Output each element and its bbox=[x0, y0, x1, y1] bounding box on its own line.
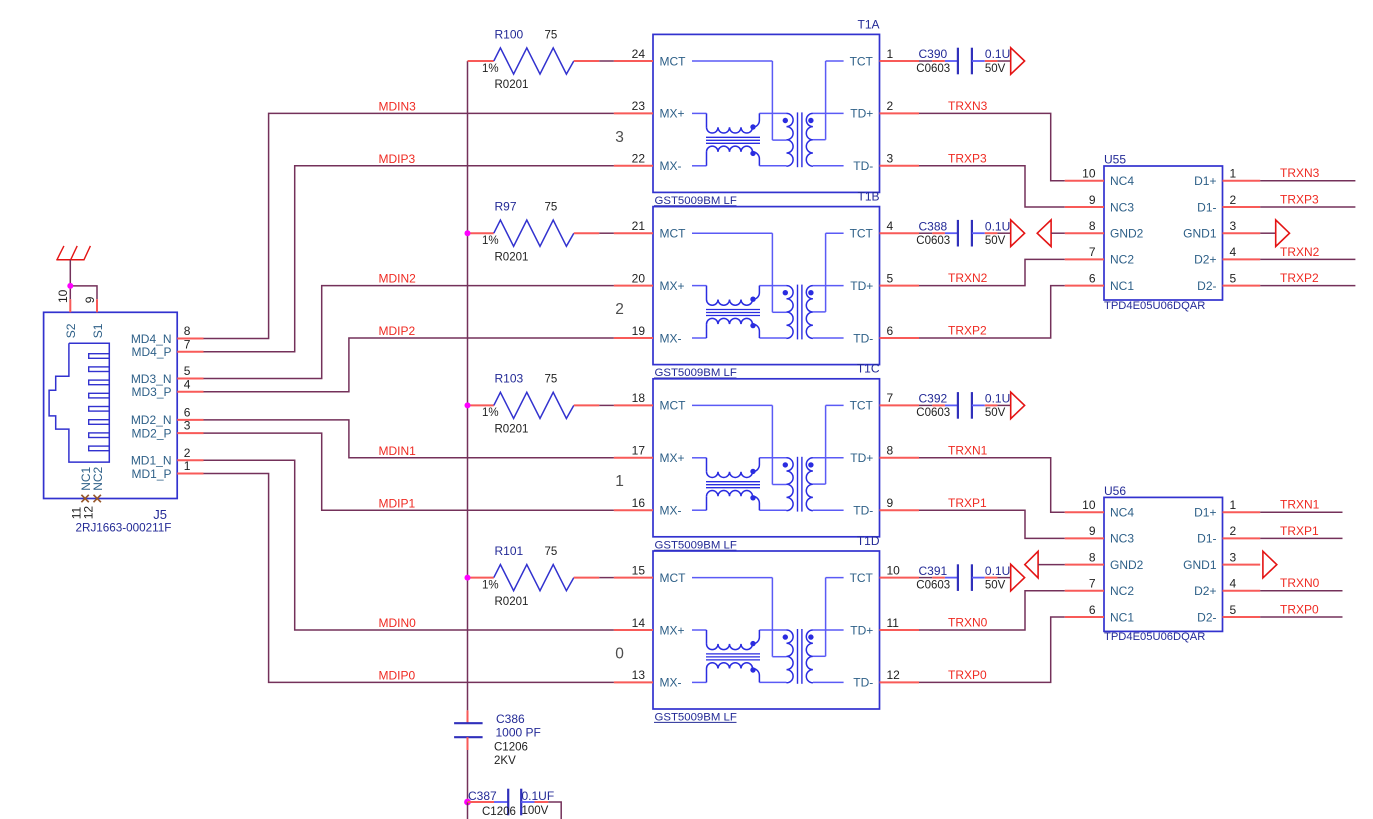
U55 pin 10 NC4 bbox=[1065, 167, 1135, 189]
svg-text:TRXP1: TRXP1 bbox=[948, 496, 987, 510]
svg-text:C391: C391 bbox=[919, 564, 948, 578]
svg-text:GND1: GND1 bbox=[1183, 558, 1217, 572]
junction bus R101 bbox=[465, 575, 471, 581]
T1B pin 5 bbox=[880, 271, 920, 285]
T1A pin 24 bbox=[614, 47, 653, 61]
svg-text:MX-: MX- bbox=[660, 504, 682, 518]
U56 pin 6 NC1 bbox=[1065, 603, 1135, 625]
svg-text:MDIP2: MDIP2 bbox=[379, 324, 416, 338]
svg-text:9: 9 bbox=[1089, 193, 1096, 207]
U56 GND1 chassis arrow bbox=[1263, 551, 1277, 578]
svg-text:TRXP3: TRXP3 bbox=[948, 151, 987, 165]
T1D pin 10 bbox=[880, 563, 920, 577]
svg-text:4: 4 bbox=[1230, 245, 1237, 259]
J5 pin 4 MD3_P bbox=[131, 377, 203, 399]
capacitor C387 0.1UF 100V C1206 bbox=[468, 789, 555, 818]
svg-text:S2: S2 bbox=[64, 323, 78, 338]
svg-text:MCT: MCT bbox=[660, 399, 687, 413]
svg-text:8: 8 bbox=[184, 324, 191, 338]
svg-text:R0201: R0201 bbox=[495, 79, 529, 91]
svg-text:50V: 50V bbox=[985, 235, 1006, 247]
chassis arrow C391 bbox=[1011, 564, 1025, 591]
wire C392 to chassis arrow bbox=[997, 404, 1010, 406]
U56 pin 5 D2- bbox=[1197, 603, 1260, 625]
chassis arrow C388 bbox=[1011, 220, 1025, 247]
U55 GND2 chassis arrow bbox=[1037, 220, 1065, 247]
svg-text:11: 11 bbox=[887, 616, 900, 630]
svg-text:NC3: NC3 bbox=[1110, 200, 1134, 214]
U55 pin 3 GND1 bbox=[1183, 219, 1260, 241]
svg-text:7: 7 bbox=[1089, 245, 1096, 259]
wire TRXN3 out bbox=[1260, 180, 1355, 182]
wire MDIN2 bbox=[204, 286, 614, 379]
svg-text:D1-: D1- bbox=[1197, 532, 1216, 546]
svg-text:1%: 1% bbox=[482, 235, 499, 247]
svg-text:TRXP2: TRXP2 bbox=[948, 324, 987, 338]
svg-text:7: 7 bbox=[184, 337, 191, 351]
svg-text:NC4: NC4 bbox=[1110, 174, 1134, 188]
svg-text:20: 20 bbox=[632, 271, 646, 285]
T1B pin 21 bbox=[614, 219, 653, 233]
svg-text:1%: 1% bbox=[482, 407, 499, 419]
svg-text:TCT: TCT bbox=[850, 571, 874, 585]
svg-text:3: 3 bbox=[184, 419, 191, 433]
svg-text:D1-: D1- bbox=[1197, 200, 1216, 214]
svg-text:5: 5 bbox=[887, 271, 894, 285]
svg-text:0.1U: 0.1U bbox=[985, 219, 1010, 233]
svg-text:15: 15 bbox=[632, 563, 646, 577]
svg-text:1000 PF: 1000 PF bbox=[496, 725, 541, 739]
svg-text:T1D: T1D bbox=[857, 534, 880, 548]
svg-text:MX+: MX+ bbox=[660, 623, 685, 637]
wire R97 to pin 21 bbox=[599, 232, 614, 234]
svg-text:10: 10 bbox=[1082, 498, 1096, 512]
U56 GND2 chassis arrow bbox=[1025, 551, 1065, 578]
junction C387 bbox=[464, 799, 471, 806]
svg-text:TD-: TD- bbox=[853, 159, 873, 173]
svg-text:R0201: R0201 bbox=[495, 251, 529, 263]
svg-text:NC2: NC2 bbox=[1110, 253, 1134, 267]
wire TRXP3 to TVS bbox=[919, 166, 1065, 207]
svg-text:8: 8 bbox=[1089, 550, 1096, 564]
svg-text:23: 23 bbox=[632, 99, 646, 113]
svg-text:8: 8 bbox=[1089, 219, 1096, 233]
svg-text:8: 8 bbox=[887, 444, 894, 458]
wire TRXP1 to TVS bbox=[919, 510, 1065, 538]
J5 pin 11 NC1 bbox=[69, 466, 93, 519]
svg-text:C0603: C0603 bbox=[916, 579, 950, 591]
resistor R100 75 1% R0201 bbox=[468, 27, 600, 91]
U56 pin 1 D1+ bbox=[1194, 498, 1260, 520]
wire R100 to pin 24 bbox=[599, 60, 614, 62]
wire chassis to J5 shield pins bbox=[70, 260, 97, 300]
svg-text:TCT: TCT bbox=[850, 54, 874, 68]
svg-text:C1206: C1206 bbox=[494, 742, 528, 754]
svg-text:100V: 100V bbox=[522, 805, 549, 817]
svg-text:9: 9 bbox=[887, 496, 894, 510]
svg-text:GST5009BM LF: GST5009BM LF bbox=[655, 539, 737, 551]
T1C pin 7 bbox=[880, 391, 920, 405]
svg-text:NC1: NC1 bbox=[1110, 610, 1134, 624]
chassis arrow C392 bbox=[1011, 392, 1025, 419]
svg-text:3: 3 bbox=[887, 152, 894, 166]
wire TRXN0 to TVS bbox=[919, 591, 1065, 630]
U55 pin 8 GND2 bbox=[1065, 219, 1144, 241]
wire R101 to pin 15 bbox=[599, 577, 614, 579]
svg-text:14: 14 bbox=[632, 616, 646, 630]
U55 pin 9 NC3 bbox=[1065, 193, 1135, 215]
capacitor C390 0.1U 50V C0603 bbox=[916, 47, 1010, 75]
svg-text:R103: R103 bbox=[495, 372, 524, 386]
U55 GND1 chassis arrow bbox=[1260, 220, 1289, 247]
svg-text:MD4_N: MD4_N bbox=[131, 332, 172, 346]
svg-text:0: 0 bbox=[615, 645, 624, 662]
svg-text:MCT: MCT bbox=[660, 227, 687, 241]
svg-text:2: 2 bbox=[1230, 524, 1237, 538]
wire C386 to C387 bbox=[467, 750, 469, 802]
svg-text:MDIP3: MDIP3 bbox=[379, 152, 416, 166]
svg-text:R0201: R0201 bbox=[495, 424, 529, 436]
connector J5 bbox=[44, 312, 178, 498]
svg-text:MD2_P: MD2_P bbox=[131, 426, 171, 440]
T1C pin 16 bbox=[614, 496, 653, 510]
svg-text:D2-: D2- bbox=[1197, 610, 1216, 624]
svg-text:MDIP1: MDIP1 bbox=[379, 496, 416, 510]
U56 pin 3 GND1 bbox=[1183, 550, 1260, 572]
svg-text:50V: 50V bbox=[985, 407, 1006, 419]
svg-text:TD+: TD+ bbox=[850, 451, 873, 465]
svg-text:4: 4 bbox=[184, 377, 191, 391]
svg-text:MDIN3: MDIN3 bbox=[379, 100, 417, 114]
T1A pin 3 bbox=[880, 152, 920, 166]
svg-text:C1206: C1206 bbox=[482, 806, 516, 818]
svg-text:5: 5 bbox=[1230, 271, 1237, 285]
T1D pin 13 bbox=[614, 668, 653, 682]
svg-text:U56: U56 bbox=[1104, 484, 1126, 498]
svg-text:C0603: C0603 bbox=[916, 63, 950, 75]
J5 pin 3 MD2_P bbox=[131, 419, 203, 441]
J5 pin 2 MD1_N bbox=[131, 446, 204, 468]
U55 pin 2 D1- bbox=[1197, 193, 1260, 215]
U56 pin 2 D1- bbox=[1197, 524, 1260, 546]
J5 pin 9 S1 bbox=[83, 296, 105, 338]
svg-text:2: 2 bbox=[184, 446, 191, 460]
wire TRXP0 out bbox=[1260, 616, 1342, 618]
TVS diode array U56 TPD4E05U06DQAR bbox=[1104, 484, 1223, 643]
wire TRXP2 to TVS bbox=[919, 286, 1065, 338]
svg-text:MCT: MCT bbox=[660, 571, 687, 585]
transformer T1A GST5009BM LF bbox=[653, 17, 880, 207]
svg-text:C390: C390 bbox=[919, 47, 948, 61]
svg-text:MDIN2: MDIN2 bbox=[379, 272, 417, 286]
svg-text:TCT: TCT bbox=[850, 399, 874, 413]
svg-text:1: 1 bbox=[184, 459, 191, 473]
svg-text:MX-: MX- bbox=[660, 676, 682, 690]
svg-text:10: 10 bbox=[887, 563, 901, 577]
svg-text:75: 75 bbox=[545, 202, 558, 214]
J5 pin 7 MD4_P bbox=[131, 337, 203, 359]
T1C pin 18 bbox=[614, 391, 653, 405]
svg-text:50V: 50V bbox=[985, 579, 1006, 591]
svg-text:3: 3 bbox=[1230, 219, 1237, 233]
T1D pin 12 bbox=[880, 668, 920, 682]
svg-text:3: 3 bbox=[1230, 550, 1237, 564]
wire MCT bus vertical bbox=[467, 61, 469, 710]
svg-text:TD+: TD+ bbox=[850, 107, 873, 121]
svg-text:MX+: MX+ bbox=[660, 107, 685, 121]
svg-text:NC3: NC3 bbox=[1110, 532, 1134, 546]
T1D pin 15 bbox=[614, 563, 653, 577]
svg-text:D2+: D2+ bbox=[1194, 584, 1216, 598]
svg-text:TRXP2: TRXP2 bbox=[1280, 271, 1319, 285]
wire TRXN2 out bbox=[1260, 258, 1355, 260]
wire TRXP3 out bbox=[1260, 206, 1355, 208]
svg-text:10: 10 bbox=[56, 289, 70, 303]
svg-text:TD+: TD+ bbox=[850, 279, 873, 293]
svg-text:6: 6 bbox=[1089, 271, 1096, 285]
svg-text:TRXN1: TRXN1 bbox=[1280, 498, 1320, 512]
svg-text:R101: R101 bbox=[495, 544, 524, 558]
T1D pin 11 bbox=[880, 616, 920, 630]
capacitor C391 0.1U 50V C0603 bbox=[916, 564, 1010, 592]
resistor R101 75 1% R0201 bbox=[468, 544, 600, 608]
svg-text:C387: C387 bbox=[468, 789, 497, 803]
svg-text:0.1UF: 0.1UF bbox=[522, 789, 555, 803]
svg-text:C0603: C0603 bbox=[916, 407, 950, 419]
transformer T1C GST5009BM LF bbox=[653, 362, 880, 552]
svg-text:GND1: GND1 bbox=[1183, 227, 1217, 241]
svg-text:R100: R100 bbox=[495, 27, 524, 41]
svg-text:R0201: R0201 bbox=[495, 596, 529, 608]
svg-text:TRXN2: TRXN2 bbox=[948, 271, 988, 285]
TVS diode array U55 TPD4E05U06DQAR bbox=[1104, 153, 1223, 312]
svg-text:TRXN1: TRXN1 bbox=[948, 443, 988, 457]
capacitor C386 1000PF C1206 2KV bbox=[454, 710, 541, 767]
wire MDIP3 bbox=[204, 166, 614, 352]
svg-text:TCT: TCT bbox=[850, 227, 874, 241]
resistor R97 75 1% R0201 bbox=[468, 200, 600, 264]
svg-text:TRXN0: TRXN0 bbox=[948, 616, 988, 630]
svg-text:TRXP1: TRXP1 bbox=[1280, 524, 1319, 538]
svg-text:TRXN3: TRXN3 bbox=[1280, 166, 1320, 180]
U55 pin 5 D2- bbox=[1197, 271, 1260, 293]
svg-text:12: 12 bbox=[81, 506, 95, 520]
svg-text:6: 6 bbox=[184, 406, 191, 420]
svg-text:22: 22 bbox=[632, 152, 646, 166]
svg-text:5: 5 bbox=[184, 364, 191, 378]
chassis ground symbol bbox=[56, 246, 90, 260]
svg-text:4: 4 bbox=[887, 219, 894, 233]
wire TRXP0 to TVS bbox=[919, 617, 1065, 682]
svg-text:17: 17 bbox=[632, 444, 646, 458]
T1A pin 23 bbox=[614, 99, 653, 113]
wire C391 to chassis arrow bbox=[997, 577, 1010, 579]
svg-text:MDIN0: MDIN0 bbox=[379, 616, 417, 630]
wire C390 to chassis arrow bbox=[997, 60, 1010, 62]
T1B pin 4 bbox=[880, 219, 920, 233]
svg-text:TRXP3: TRXP3 bbox=[1280, 192, 1319, 206]
wire TRXN1 to TVS bbox=[919, 458, 1065, 512]
J5 pin 6 MD2_N bbox=[131, 406, 204, 428]
svg-text:MD3_N: MD3_N bbox=[131, 372, 172, 386]
T1C pin 8 bbox=[880, 444, 920, 458]
svg-text:2: 2 bbox=[887, 99, 894, 113]
svg-text:10: 10 bbox=[1082, 167, 1096, 181]
svg-text:75: 75 bbox=[545, 374, 558, 386]
svg-text:4: 4 bbox=[1230, 577, 1237, 591]
svg-text:75: 75 bbox=[545, 29, 558, 41]
svg-text:1: 1 bbox=[1230, 167, 1237, 181]
chassis arrow C390 bbox=[1011, 48, 1025, 75]
U56 pin 4 D2+ bbox=[1194, 577, 1260, 599]
wire MDIP1 bbox=[204, 433, 614, 510]
svg-text:T1C: T1C bbox=[857, 362, 880, 376]
wire MDIP2 bbox=[204, 338, 614, 392]
svg-text:24: 24 bbox=[632, 47, 646, 61]
wire TRXN2 to TVS bbox=[919, 259, 1065, 285]
junction bus R103 bbox=[465, 402, 471, 408]
J5 pin 8 MD4_N bbox=[131, 324, 204, 346]
svg-text:50V: 50V bbox=[985, 63, 1006, 75]
T1A pin 22 bbox=[614, 152, 653, 166]
T1D pin 14 bbox=[614, 616, 653, 630]
svg-text:19: 19 bbox=[632, 324, 646, 338]
J5 pin 5 MD3_N bbox=[131, 364, 204, 386]
T1C pin 17 bbox=[614, 444, 653, 458]
resistor R103 75 1% R0201 bbox=[468, 372, 600, 436]
svg-text:NC2: NC2 bbox=[91, 466, 105, 490]
svg-text:1: 1 bbox=[887, 47, 894, 61]
transformer T1B GST5009BM LF bbox=[653, 190, 880, 380]
svg-text:NC2: NC2 bbox=[1110, 584, 1134, 598]
svg-text:1: 1 bbox=[615, 473, 624, 490]
capacitor C392 0.1U 50V C0603 bbox=[916, 392, 1010, 420]
svg-text:7: 7 bbox=[887, 391, 894, 405]
T1A pin 1 bbox=[880, 47, 920, 61]
U56 pin 7 NC2 bbox=[1065, 577, 1135, 599]
svg-text:GND2: GND2 bbox=[1110, 558, 1144, 572]
U55 pin 4 D2+ bbox=[1194, 245, 1260, 267]
wire TRXP2 out bbox=[1260, 285, 1355, 287]
svg-text:0.1U: 0.1U bbox=[985, 392, 1010, 406]
svg-text:75: 75 bbox=[545, 546, 558, 558]
svg-text:2KV: 2KV bbox=[494, 755, 516, 767]
wire TRXN0 out bbox=[1260, 590, 1342, 592]
wire C388 to chassis arrow bbox=[997, 232, 1010, 234]
U56 pin 8 GND2 bbox=[1065, 550, 1144, 572]
T1C pin 9 bbox=[880, 496, 920, 510]
wire MDIN1 bbox=[204, 420, 614, 458]
svg-text:C392: C392 bbox=[919, 392, 948, 406]
svg-text:9: 9 bbox=[1089, 524, 1096, 538]
svg-text:R97: R97 bbox=[495, 200, 517, 214]
J5 pin 1 MD1_P bbox=[131, 459, 203, 481]
wire C387 off-page bbox=[548, 802, 561, 819]
wire MDIN3 bbox=[204, 113, 614, 338]
svg-text:MDIN1: MDIN1 bbox=[379, 444, 417, 458]
T1B pin 19 bbox=[614, 324, 653, 338]
svg-text:TRXN2: TRXN2 bbox=[1280, 245, 1320, 259]
U55 pin 7 NC2 bbox=[1065, 245, 1135, 267]
U56 pin 9 NC3 bbox=[1065, 524, 1135, 546]
svg-text:MX+: MX+ bbox=[660, 279, 685, 293]
U55 pin 6 NC1 bbox=[1065, 271, 1135, 293]
svg-text:MX-: MX- bbox=[660, 331, 682, 345]
svg-text:6: 6 bbox=[1089, 603, 1096, 617]
svg-text:12: 12 bbox=[887, 668, 901, 682]
svg-text:C388: C388 bbox=[919, 219, 948, 233]
svg-text:GST5009BM LF: GST5009BM LF bbox=[655, 195, 737, 207]
svg-text:D2+: D2+ bbox=[1194, 253, 1216, 267]
svg-text:TPD4E05U06DQAR: TPD4E05U06DQAR bbox=[1104, 631, 1205, 643]
svg-text:D2-: D2- bbox=[1197, 279, 1216, 293]
transformer T1D GST5009BM LF bbox=[653, 534, 880, 724]
svg-text:13: 13 bbox=[632, 668, 646, 682]
T1A pin 2 bbox=[880, 99, 920, 113]
svg-text:MCT: MCT bbox=[660, 54, 687, 68]
svg-text:18: 18 bbox=[632, 391, 646, 405]
svg-text:1%: 1% bbox=[482, 579, 499, 591]
wire R103 to pin 18 bbox=[599, 404, 614, 406]
svg-text:2: 2 bbox=[1230, 193, 1237, 207]
svg-text:TD-: TD- bbox=[853, 331, 873, 345]
svg-text:NC4: NC4 bbox=[1110, 506, 1134, 520]
wire MDIP0 bbox=[204, 474, 614, 683]
junction shield net bbox=[67, 283, 73, 289]
svg-text:3: 3 bbox=[615, 129, 624, 146]
svg-text:GST5009BM LF: GST5009BM LF bbox=[655, 367, 737, 379]
T1B pin 20 bbox=[614, 271, 653, 285]
capacitor C388 0.1U 50V C0603 bbox=[916, 219, 1010, 247]
wire MDIN0 bbox=[204, 460, 614, 630]
svg-text:C386: C386 bbox=[496, 712, 525, 726]
J5 pin 10 S2 bbox=[56, 289, 78, 338]
svg-text:TRXP0: TRXP0 bbox=[948, 668, 987, 682]
svg-text:9: 9 bbox=[83, 296, 97, 303]
svg-text:TRXP0: TRXP0 bbox=[1280, 602, 1319, 616]
svg-text:MDIP0: MDIP0 bbox=[379, 669, 416, 683]
T1B pin 6 bbox=[880, 324, 920, 338]
svg-text:0.1U: 0.1U bbox=[985, 564, 1010, 578]
wire TRXP1 out bbox=[1260, 537, 1342, 539]
svg-text:T1B: T1B bbox=[857, 190, 879, 204]
svg-text:S1: S1 bbox=[91, 323, 105, 338]
svg-text:MD1_N: MD1_N bbox=[131, 454, 172, 468]
svg-text:MD2_N: MD2_N bbox=[131, 413, 172, 427]
svg-text:NC1: NC1 bbox=[1110, 279, 1134, 293]
svg-text:1: 1 bbox=[1230, 498, 1237, 512]
svg-text:7: 7 bbox=[1089, 577, 1096, 591]
svg-text:2RJ1663-000211F: 2RJ1663-000211F bbox=[76, 522, 172, 535]
svg-text:T1A: T1A bbox=[857, 17, 879, 31]
svg-text:MX-: MX- bbox=[660, 159, 682, 173]
svg-text:2: 2 bbox=[615, 301, 624, 318]
wire bus off-page bbox=[467, 802, 469, 819]
svg-text:GST5009BM LF: GST5009BM LF bbox=[655, 712, 737, 724]
U56 pin 10 NC4 bbox=[1065, 498, 1135, 520]
svg-text:0.1U: 0.1U bbox=[985, 47, 1010, 61]
svg-text:TD-: TD- bbox=[853, 676, 873, 690]
svg-text:D1+: D1+ bbox=[1194, 506, 1216, 520]
svg-text:U55: U55 bbox=[1104, 153, 1126, 167]
svg-text:TRXN3: TRXN3 bbox=[948, 99, 988, 113]
svg-text:J5: J5 bbox=[153, 507, 167, 522]
svg-text:TD+: TD+ bbox=[850, 623, 873, 637]
svg-text:D1+: D1+ bbox=[1194, 174, 1216, 188]
svg-text:TPD4E05U06DQAR: TPD4E05U06DQAR bbox=[1104, 300, 1205, 312]
svg-text:16: 16 bbox=[632, 496, 646, 510]
svg-text:TD-: TD- bbox=[853, 504, 873, 518]
